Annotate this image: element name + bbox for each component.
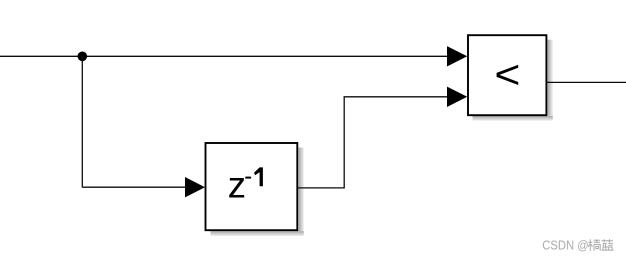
wire: relational block output to right edge [547,81,626,83]
relational operator block shadow [473,40,553,121]
watermark glyph lan (blue) [601,239,613,250]
arrowhead into unit delay block [185,177,205,197]
wire: vertical rise [343,97,345,189]
wire: top input line from left edge to relational block input 1 [0,55,449,57]
arrowhead into relational block input 1 [447,46,467,66]
svg-text:z: z [228,164,246,205]
wire: vertical drop from junction [81,56,83,187]
unit delay block Z^-1 [206,143,298,230]
label superscript 1 [254,167,263,186]
arrowhead into relational block input 2 [447,87,467,107]
svg-text:<: < [494,53,520,97]
node: branch junction dot [78,52,88,62]
svg-text:CSDN @: CSDN @ [542,238,589,252]
wire: horizontal segment into relational block input 2 [344,96,450,98]
wire: horizontal segment into unit delay input [82,186,187,188]
unit delay block shadow [211,148,304,237]
relational operator block [468,35,546,115]
watermark glyph ju (orange) [588,239,600,250]
label superscript -1 [245,177,251,179]
wire: unit delay output segment [297,187,344,189]
